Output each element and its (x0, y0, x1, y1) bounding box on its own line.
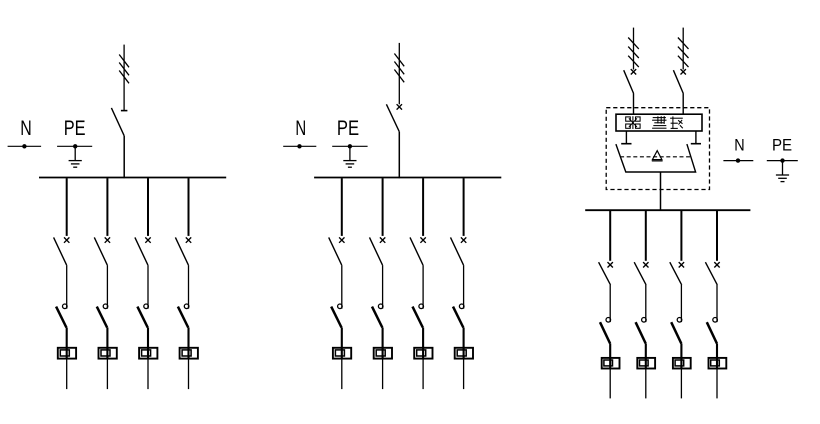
breaker QF3A blade (624, 70, 634, 93)
wire: contactor to meter box, feeder 2-1 (341, 328, 343, 360)
contactor hinge circle, feeder 2-1 (338, 304, 343, 309)
meter box inner, feeder 2-3 (417, 350, 426, 356)
section 1: distribution panel AP1 (8, 45, 227, 390)
breaker contact x, feeder 1-3 (145, 237, 150, 242)
breaker QF2 blade (386, 104, 399, 131)
contactor blade, feeder 1-1 (56, 307, 66, 328)
wire: QF3A to ATS (633, 94, 635, 115)
ground symbol (section 1) (69, 161, 82, 168)
wire: busbar drop, feeder 3-4 (716, 211, 718, 261)
isolator QS1 fixed contact bar (121, 110, 128, 112)
wire: breaker to contactor, feeder 1-2 (106, 265, 108, 309)
wire: busbar drop, feeder 3-2 (645, 211, 647, 261)
breaker blade, feeder 3-3 (670, 262, 682, 285)
wire: busbar drop, feeder 2-1 (341, 178, 343, 236)
meter box outer, feeder 2-4 (455, 348, 473, 359)
ATS controller label box (616, 114, 702, 131)
contactor blade, feeder 3-2 (636, 322, 646, 343)
meter box inner, feeder 2-4 (457, 350, 466, 356)
breaker contact x, feeder 3-3 (679, 262, 684, 267)
cable conductor hatch marks W3A (628, 38, 639, 68)
contactor hinge circle, feeder 2-3 (419, 304, 424, 309)
meter box outer, feeder 2-1 (333, 348, 351, 359)
wire: contactor to meter box, feeder 1-1 (66, 328, 68, 360)
wire: busbar drop, feeder 2-4 (463, 178, 465, 236)
wire: breaker to contactor, feeder 2-1 (341, 265, 343, 309)
wire: outgoing tail, feeder 2-1 (341, 359, 343, 389)
breaker QF3B blade (673, 70, 683, 93)
meter box inner, feeder 1-1 (60, 350, 69, 356)
meter box outer, feeder 1-3 (139, 348, 157, 359)
label char: kong (rotated) (670, 116, 683, 128)
meter box inner, feeder 1-2 (101, 350, 110, 356)
ATS pole B fixed contact (691, 143, 701, 145)
section 3: dual-supply panel with ATS (585, 28, 798, 399)
contactor blade, feeder 1-3 (137, 307, 147, 328)
label char: qi (rotated) (626, 116, 640, 129)
wire: contactor to meter box, feeder 3-2 (645, 344, 647, 370)
wire: breaker to contactor, feeder 2-4 (463, 265, 465, 309)
wire: QF3B to ATS (682, 94, 684, 115)
wire: breaker to contactor, feeder 3-4 (716, 285, 718, 322)
wire: busbar drop, feeder 1-3 (147, 178, 149, 236)
busbar 1 (39, 177, 226, 179)
section 2: distribution panel AP2 (283, 43, 501, 389)
contactor blade, feeder 1-2 (97, 307, 107, 328)
wire: contactor to meter box, feeder 1-2 (106, 328, 108, 360)
meter box outer, feeder 2-2 (374, 348, 392, 359)
wire: breaker to contactor, feeder 3-3 (680, 285, 682, 322)
ATS travel dashed line (620, 156, 691, 158)
breaker contact x, feeder 1-1 (64, 237, 69, 242)
contactor blade, feeder 2-3 (413, 307, 423, 328)
svg-text:PE: PE (337, 117, 359, 140)
wire: breaker to contactor, feeder 1-4 (188, 265, 190, 309)
wire: contactor to meter box, feeder 3-4 (716, 344, 718, 370)
breaker QF3B contact x (681, 69, 686, 74)
meter box outer, feeder 3-2 (637, 358, 655, 369)
wire: breaker to contactor, feeder 3-2 (645, 285, 647, 322)
breaker QF2 contact x (397, 104, 402, 109)
busbar 3 (585, 209, 750, 211)
breaker contact x, feeder 3-1 (608, 262, 613, 267)
wire: contactor to meter box, feeder 2-4 (463, 328, 465, 360)
node: N junction dot (section 3) (736, 158, 740, 162)
breaker blade, feeder 2-3 (410, 237, 423, 265)
wire: breaker to contactor, feeder 2-2 (382, 265, 384, 309)
wire: PE bar (section 2) (332, 145, 367, 147)
breaker QF3A contact x (631, 69, 636, 74)
meter box inner, feeder 3-4 (711, 360, 720, 366)
contactor blade, feeder 1-4 (178, 307, 188, 328)
breaker contact x, feeder 3-4 (714, 262, 719, 267)
wire: outgoing tail, feeder 2-3 (422, 359, 424, 389)
wire: PE bar (section 3) (767, 160, 798, 162)
wire: PE earth drop (section 1) (74, 146, 76, 160)
meter box inner, feeder 3-2 (640, 360, 649, 366)
meter box outer, feeder 3-4 (709, 358, 727, 369)
wire: outgoing tail, feeder 1-1 (66, 359, 68, 389)
breaker contact x, feeder 3-2 (643, 262, 648, 267)
wire: busbar drop, feeder 2-2 (382, 178, 384, 236)
wire: busbar drop, feeder 1-1 (66, 178, 68, 236)
wire: contactor to meter box, feeder 3-1 (609, 344, 611, 370)
contactor hinge circle, feeder 1-3 (144, 304, 149, 309)
wire: QF2 to busbar 2 (398, 132, 400, 179)
wire: contactor to meter box, feeder 3-3 (680, 344, 682, 370)
contactor blade, feeder 3-1 (600, 322, 610, 343)
contactor blade, feeder 2-1 (331, 307, 341, 328)
contactor hinge circle, feeder 3-4 (713, 318, 718, 323)
meter box outer, feeder 3-1 (602, 358, 620, 369)
wire: busbar drop, feeder 3-3 (680, 211, 682, 261)
cable conductor hatch marks W3B (678, 38, 689, 68)
contactor blade, feeder 2-4 (453, 307, 463, 328)
breaker blade, feeder 1-1 (54, 237, 67, 265)
wire: busbar drop, feeder 2-3 (422, 178, 424, 236)
meter box inner, feeder 3-1 (604, 360, 613, 366)
wire: N bar (section 2) (283, 145, 316, 147)
ATS pole B stub (695, 131, 697, 144)
contactor blade, feeder 3-3 (671, 322, 681, 343)
cable conductor hatch marks W1 (119, 55, 129, 84)
wire: incoming cable W3A (633, 28, 635, 70)
node: PE junction dot (section 2) (348, 144, 352, 148)
svg-text:PE: PE (772, 137, 792, 155)
node: N junction dot (section 1) (22, 144, 26, 148)
svg-text:N: N (295, 117, 306, 140)
wire: outgoing tail, feeder 1-2 (106, 359, 108, 389)
breaker blade, feeder 2-1 (329, 237, 342, 265)
meter box inner, feeder 2-1 (335, 350, 344, 356)
cable conductor hatch marks W2 (394, 54, 404, 83)
wire: outgoing tail, feeder 3-4 (716, 369, 718, 398)
wire: outgoing tail, feeder 3-1 (609, 369, 611, 398)
breaker blade, feeder 1-3 (135, 237, 148, 265)
busbar 2 (314, 177, 501, 179)
breaker contact x, feeder 2-2 (380, 237, 385, 242)
ATS rocker body (616, 144, 696, 172)
contactor hinge circle, feeder 1-2 (103, 304, 108, 309)
wire: busbar drop, feeder 1-4 (188, 178, 190, 236)
contactor blade, feeder 3-4 (707, 322, 717, 343)
contactor hinge circle, feeder 1-4 (184, 304, 189, 309)
node: N junction dot (section 2) (297, 144, 301, 148)
meter box inner, feeder 3-3 (675, 360, 684, 366)
wire: contactor to meter box, feeder 1-3 (147, 328, 149, 360)
wire: contactor to meter box, feeder 2-3 (422, 328, 424, 360)
wire: N bar (section 3) (723, 160, 753, 162)
wire: QS1 to busbar 1 (123, 136, 125, 178)
wire: PE earth drop (section 3) (782, 161, 784, 175)
breaker blade, feeder 1-4 (175, 237, 188, 265)
wire: incoming cable W3B (682, 28, 684, 70)
wire: PE bar (section 1) (57, 145, 92, 147)
wire: outgoing tail, feeder 3-3 (680, 369, 682, 398)
ground symbol (section 2) (343, 161, 356, 168)
wire: outgoing tail, feeder 2-4 (463, 359, 465, 389)
svg-text:PE: PE (64, 117, 86, 140)
meter box outer, feeder 1-4 (180, 348, 198, 359)
contactor hinge circle, feeder 3-3 (677, 318, 682, 323)
wire: breaker to contactor, feeder 1-1 (66, 265, 68, 309)
contactor hinge circle, feeder 2-2 (378, 304, 383, 309)
wire: incoming cable W1 (123, 45, 125, 111)
contactor hinge circle, feeder 2-4 (459, 304, 464, 309)
ATS pivot triangle (652, 151, 662, 160)
node: PE junction dot (section 1) (73, 144, 77, 148)
ground symbol (section 3) (776, 175, 789, 182)
breaker blade, feeder 2-4 (451, 237, 464, 265)
wire: breaker to contactor, feeder 3-1 (609, 285, 611, 322)
breaker blade, feeder 3-4 (705, 262, 717, 285)
svg-text:N: N (20, 117, 32, 140)
meter box outer, feeder 2-3 (414, 348, 432, 359)
breaker contact x, feeder 2-4 (461, 237, 466, 242)
meter box inner, feeder 1-4 (182, 350, 191, 356)
wire: outgoing tail, feeder 3-2 (645, 369, 647, 398)
contactor hinge circle, feeder 1-1 (63, 304, 68, 309)
contactor blade, feeder 2-2 (372, 307, 382, 328)
breaker contact x, feeder 1-4 (186, 237, 191, 242)
meter box inner, feeder 2-2 (376, 350, 385, 356)
breaker blade, feeder 3-2 (634, 262, 646, 285)
meter box outer, feeder 1-1 (58, 348, 76, 359)
wire: contactor to meter box, feeder 1-4 (187, 328, 189, 360)
breaker contact x, feeder 1-2 (105, 237, 110, 242)
ATS pole A stub (625, 131, 627, 144)
wire: incoming cable W2 (398, 43, 400, 104)
wire: contactor to meter box, feeder 2-2 (382, 328, 384, 360)
wire: N bar (section 1) (8, 145, 42, 147)
wire: breaker to contactor, feeder 2-3 (422, 265, 424, 309)
breaker contact x, feeder 2-1 (339, 237, 344, 242)
contactor hinge circle, feeder 3-2 (642, 318, 647, 323)
svg-text:N: N (734, 137, 744, 155)
ATS pole A fixed contact (621, 143, 631, 145)
wire: outgoing tail, feeder 2-2 (382, 359, 384, 389)
wire: PE earth drop (section 2) (349, 146, 351, 160)
isolator QS1 blade (111, 108, 124, 136)
wire: busbar drop, feeder 1-2 (106, 178, 108, 236)
wire: breaker to contactor, feeder 1-3 (147, 265, 149, 309)
breaker contact x, feeder 2-3 (420, 237, 425, 242)
meter box inner, feeder 1-3 (142, 350, 151, 356)
wire: busbar drop, feeder 3-1 (609, 211, 611, 261)
wire: outgoing tail, feeder 1-3 (147, 359, 149, 389)
meter box outer, feeder 1-2 (99, 348, 117, 359)
ATS dashed enclosure (606, 108, 709, 190)
meter box outer, feeder 3-3 (673, 358, 691, 369)
breaker blade, feeder 2-2 (370, 237, 383, 265)
ATS pivot base line (652, 160, 663, 162)
label char: zhi (rotated) (652, 116, 666, 128)
wire: ATS output to busbar 3 (660, 172, 662, 210)
breaker blade, feeder 3-1 (599, 262, 611, 285)
contactor hinge circle, feeder 3-1 (606, 318, 611, 323)
wire: outgoing tail, feeder 1-4 (188, 359, 190, 389)
breaker blade, feeder 1-2 (94, 237, 107, 265)
node: PE junction dot (section 3) (780, 158, 784, 162)
